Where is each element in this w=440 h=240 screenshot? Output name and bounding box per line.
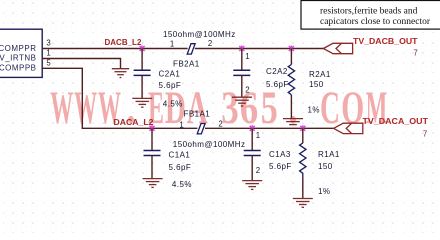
ground for C2A1 — [132, 98, 152, 107]
svg-text:5.6pF: 5.6pF — [266, 80, 289, 89]
capacitor C2A1 — [141, 49, 143, 71]
ground for C1A3 — [242, 181, 262, 190]
svg-text:W: W — [50, 82, 73, 134]
capacitor C1A3 — [251, 128, 253, 150]
ferrite bead FB1A1 — [197, 124, 205, 134]
svg-text:150ohm@100MHz: 150ohm@100MHz — [173, 140, 246, 149]
svg-text:5.6pF: 5.6pF — [169, 163, 192, 172]
svg-text:3: 3 — [46, 39, 50, 48]
svg-text:1: 1 — [256, 131, 260, 140]
svg-text:7: 7 — [413, 49, 417, 58]
svg-text:W: W — [74, 82, 97, 134]
wire DACB net: bead FB2A1 to port — [195, 48, 324, 50]
svg-text:2: 2 — [208, 39, 212, 48]
svg-text:1: 1 — [179, 120, 183, 129]
ground for C1A1 — [143, 179, 163, 188]
svg-text:C2A2: C2A2 — [266, 67, 288, 76]
junction at C2A1 tap — [140, 46, 145, 52]
svg-text:capicators close to connector: capicators close to connector — [320, 17, 431, 27]
svg-text:2: 2 — [256, 166, 260, 175]
svg-text:1: 1 — [46, 49, 50, 58]
svg-text:C2A1: C2A1 — [159, 70, 181, 79]
svg-text:1: 1 — [170, 40, 174, 49]
junction at R2A1 tap — [289, 46, 294, 52]
svg-text:4.5%: 4.5% — [172, 180, 192, 189]
capacitor C1A1 — [151, 128, 153, 150]
svg-text:1%: 1% — [308, 106, 320, 115]
svg-text:DACB_L2: DACB_L2 — [105, 38, 142, 47]
svg-text:COMPPB: COMPPB — [0, 64, 37, 73]
svg-text:4.5%: 4.5% — [163, 99, 183, 108]
svg-text:2: 2 — [218, 120, 222, 129]
junction at C1A3 tap — [250, 125, 255, 131]
svg-text:5: 5 — [46, 59, 51, 68]
note box — [301, 1, 440, 30]
svg-text:V_IRTNB: V_IRTNB — [0, 54, 37, 63]
junction at R1A1 tap — [300, 125, 305, 131]
ground for R1A1 — [293, 199, 313, 208]
svg-text:COMPPR: COMPPR — [0, 44, 37, 53]
svg-text:C1A1: C1A1 — [169, 151, 191, 160]
svg-text:2: 2 — [245, 85, 249, 94]
svg-text:5.6pF: 5.6pF — [269, 162, 292, 171]
off-page port TV_DACA_OUT — [334, 123, 363, 133]
wire DACA net: bead FB1A1 to port — [205, 127, 334, 129]
ground for R2A1 — [283, 119, 303, 125]
svg-text:resistors,ferrite beads and: resistors,ferrite beads and — [320, 5, 418, 16]
ground for pin1 — [112, 69, 129, 78]
junction at C2A2 tap — [239, 46, 244, 52]
wire COMPPB pin5 down to DACA net — [42, 68, 197, 128]
IC box U1 — [0, 29, 42, 77]
ground for C2A2 — [232, 97, 252, 106]
svg-text:150: 150 — [309, 80, 324, 89]
svg-text:7: 7 — [423, 130, 427, 139]
wire V_IRTNB pin1 to ground — [42, 59, 121, 69]
resistor R1A1 — [302, 128, 304, 143]
wire DACB net: pin3 to bead FB2A1 — [42, 48, 188, 50]
svg-text:R2A1: R2A1 — [309, 70, 331, 79]
resistor R2A1 — [290, 49, 292, 65]
svg-text:1%: 1% — [318, 187, 330, 196]
svg-text:5.6pF: 5.6pF — [159, 81, 182, 90]
junction at C1A1 tap — [150, 125, 155, 131]
svg-text:150: 150 — [318, 162, 333, 171]
ferrite bead FB2A1 — [187, 44, 195, 54]
svg-text:.: . — [288, 83, 297, 135]
svg-text:FB1A1: FB1A1 — [184, 109, 211, 118]
svg-text:C1A3: C1A3 — [269, 150, 291, 159]
capacitor C2A2 — [241, 49, 243, 71]
svg-text:TV_DACB_OUT: TV_DACB_OUT — [353, 37, 418, 46]
svg-text:TV_DACA_OUT: TV_DACA_OUT — [363, 117, 429, 126]
svg-text:3: 3 — [221, 81, 239, 133]
svg-text:DACA_L2: DACA_L2 — [114, 118, 155, 127]
watermark — [50, 81, 387, 135]
off-page port TV_DACB_OUT — [323, 43, 352, 53]
svg-text:150ohm@100MHz: 150ohm@100MHz — [163, 30, 236, 39]
svg-text:FB2A1: FB2A1 — [173, 59, 200, 68]
svg-text:1: 1 — [245, 52, 249, 61]
svg-text:R1A1: R1A1 — [318, 150, 340, 159]
